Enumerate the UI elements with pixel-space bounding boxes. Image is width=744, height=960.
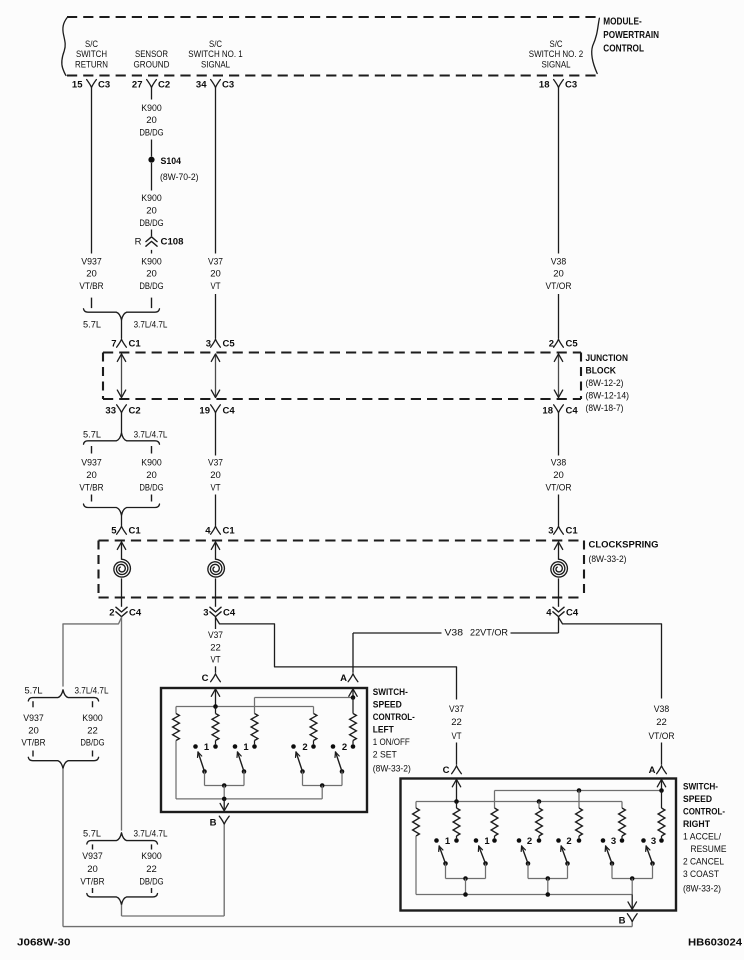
svg-text:(8W-18-7): (8W-18-7)	[586, 403, 624, 414]
wire V37 branch right	[216, 617, 457, 667]
svg-text:GROUND: GROUND	[134, 59, 170, 70]
svg-text:V937: V937	[81, 458, 102, 469]
riser R4 right	[538, 802, 540, 809]
svg-text:1 ON/OFF: 1 ON/OFF	[373, 737, 410, 748]
connector pin 3 C4	[203, 607, 236, 618]
connector pin 27 C2	[132, 80, 170, 91]
riser R7 right from A node	[661, 791, 663, 809]
svg-text:33: 33	[105, 405, 116, 416]
svg-text:V37: V37	[449, 704, 464, 715]
svg-text:C2: C2	[158, 80, 170, 91]
svg-text:20: 20	[210, 470, 221, 481]
svg-text:(8W-70-2): (8W-70-2)	[160, 172, 199, 183]
riser R3 right to A bus	[494, 791, 496, 809]
svg-text:VT/BR: VT/BR	[79, 281, 103, 292]
svg-text:22VT/OR: 22VT/OR	[470, 627, 508, 638]
svg-text:VT: VT	[452, 731, 462, 742]
svg-text:C108: C108	[161, 237, 184, 248]
riser R1	[175, 707, 177, 714]
svg-text:SWITCH-: SWITCH-	[683, 782, 718, 793]
connector pin 5 C1	[111, 526, 141, 537]
wire to pin 5 C1	[121, 515, 123, 526]
label V37 20 VT	[208, 256, 223, 292]
svg-text:22: 22	[210, 643, 221, 654]
svg-text:3.7L/4.7L: 3.7L/4.7L	[134, 429, 168, 440]
wire below splice	[151, 163, 153, 191]
label JUNCTION BLOCK	[586, 353, 630, 414]
wire return branch left to 5.7L brace	[63, 617, 122, 686]
terminal C switch-right	[443, 765, 462, 776]
pair bus 2 left box	[303, 783, 343, 799]
svg-text:27: 27	[132, 80, 143, 91]
svg-text:(8W-33-2): (8W-33-2)	[589, 554, 627, 565]
riser R3 to A bus	[254, 698, 256, 714]
merge brace to clockspring	[84, 504, 160, 515]
node C bus right box	[416, 799, 622, 804]
label K900 20 DB/DG	[139, 193, 163, 229]
connector pin 3 C1	[548, 526, 578, 537]
svg-text:BLOCK: BLOCK	[586, 366, 617, 377]
svg-text:(8W-12-14): (8W-12-14)	[586, 391, 630, 402]
riser R1 right	[415, 802, 417, 809]
switch blade 1	[237, 752, 246, 786]
svg-text:C3: C3	[222, 80, 234, 91]
svg-text:18: 18	[539, 80, 550, 91]
wire V38 branch right to switch-right A	[559, 617, 675, 764]
svg-text:20: 20	[146, 205, 157, 216]
svg-text:3.7L/4.7L: 3.7L/4.7L	[134, 320, 168, 331]
switch contact pair 2	[291, 741, 316, 754]
switch blade 2	[296, 752, 305, 786]
resistor R4 switch-left	[310, 714, 317, 741]
svg-text:3.7L/4.7L: 3.7L/4.7L	[75, 686, 109, 697]
node C bus left box	[176, 704, 314, 709]
resistor R5 switch-left	[350, 714, 357, 741]
svg-text:C4: C4	[223, 405, 236, 416]
riser R4	[313, 707, 315, 714]
svg-text:CLOCKSPRING: CLOCKSPRING	[589, 539, 659, 550]
switch contact pair 1	[233, 741, 257, 754]
svg-text:C4: C4	[566, 405, 579, 416]
resistor R1 switch-right	[413, 808, 420, 836]
svg-text:2: 2	[549, 339, 554, 350]
svg-text:S/C: S/C	[209, 39, 222, 50]
svg-text:5.7L: 5.7L	[83, 829, 101, 840]
svg-text:C1: C1	[129, 526, 142, 537]
switch-right A entry arrow	[657, 779, 665, 790]
label J068W-30	[17, 937, 71, 948]
stub K900	[151, 446, 153, 454]
riser R5 right to A bus	[578, 791, 580, 809]
switch-right contact pair 1	[474, 836, 497, 847]
pair bus 2 right box	[528, 876, 568, 894]
stub structure1 lower left	[32, 751, 34, 757]
svg-text:20: 20	[87, 864, 98, 875]
svg-text:15: 15	[72, 80, 83, 91]
svg-text:20: 20	[146, 470, 157, 481]
svg-text:C1: C1	[129, 339, 142, 350]
svg-text:SIGNAL: SIGNAL	[201, 59, 230, 70]
svg-text:18: 18	[542, 405, 553, 416]
svg-text:2 CANCEL: 2 CANCEL	[683, 857, 724, 868]
pair bus 1 right box	[446, 876, 486, 894]
wire V37 junction to clockspring	[208, 413, 223, 526]
resistor R1 switch-left	[173, 714, 180, 741]
node A bus left box	[255, 695, 356, 700]
switch-right blade 3	[605, 846, 614, 879]
svg-text:VT/BR: VT/BR	[80, 876, 104, 887]
label S/C SWITCH NO. 1 SIGNAL	[188, 39, 243, 71]
clockspring coil left	[114, 542, 131, 607]
svg-text:SPEED: SPEED	[683, 794, 712, 805]
svg-text:C2: C2	[129, 405, 141, 416]
svg-text:K900: K900	[141, 193, 161, 204]
label SWITCH-SPEED CONTROL-LEFT	[373, 687, 415, 775]
svg-text:5.7L: 5.7L	[25, 686, 43, 697]
svg-text:V38: V38	[551, 256, 567, 267]
svg-text:R: R	[135, 237, 142, 248]
svg-text:4: 4	[546, 607, 552, 618]
connector pin 4 C4	[546, 607, 579, 618]
svg-text:DB/DG: DB/DG	[139, 281, 163, 292]
splice S104	[148, 156, 198, 183]
wire from pin 33	[121, 413, 123, 434]
svg-text:K900: K900	[141, 103, 161, 114]
label V937 20 VT/BR	[79, 256, 103, 292]
svg-text:VT/BR: VT/BR	[79, 483, 103, 494]
brace structure 2 merge	[87, 894, 158, 905]
switch-right blade 2	[521, 846, 530, 879]
svg-text:7: 7	[111, 339, 116, 350]
connector pin 34 C3	[196, 80, 234, 91]
switch-right contact pair 3	[601, 836, 625, 847]
svg-text:2: 2	[566, 836, 571, 847]
wire V38 from pin 18	[558, 88, 560, 254]
switch-right blade 2	[561, 846, 570, 879]
svg-text:K900: K900	[141, 458, 161, 469]
wire structure2 to switch-left B	[122, 825, 225, 916]
connector pin 15 C3	[72, 80, 110, 91]
svg-text:1: 1	[204, 742, 210, 753]
brace structure 2 split	[83, 829, 168, 844]
svg-text:22: 22	[451, 717, 462, 728]
R1 drop to bottom bus	[175, 741, 177, 799]
connector pin 18 C4	[542, 405, 578, 417]
B exit arrow switch-right	[628, 895, 637, 910]
wire to C108	[151, 230, 153, 237]
wire V37 to switch-left C	[208, 617, 223, 672]
wire V38 main left to switch-left A	[353, 617, 559, 672]
connector pin 2 C4	[109, 607, 142, 618]
svg-text:20: 20	[146, 115, 157, 126]
label MODULE-POWERTRAIN CONTROL	[603, 16, 659, 54]
svg-text:20: 20	[553, 470, 564, 481]
svg-text:C1: C1	[566, 526, 579, 537]
wire V38 junction to clockspring	[546, 413, 572, 526]
bottom bus right box	[416, 892, 632, 897]
bottom bus left box	[176, 797, 322, 802]
svg-text:22: 22	[146, 864, 157, 875]
svg-text:5.7L: 5.7L	[83, 320, 101, 331]
svg-text:SPEED: SPEED	[373, 700, 402, 711]
resistor R7 switch-right	[658, 808, 665, 836]
svg-text:V38: V38	[445, 627, 464, 638]
svg-text:C5: C5	[566, 339, 579, 350]
svg-text:(8W-12-2): (8W-12-2)	[586, 378, 624, 389]
svg-text:SWITCH-: SWITCH-	[373, 687, 408, 698]
riser R2 right from C node	[456, 802, 458, 809]
svg-text:JUNCTION: JUNCTION	[586, 353, 629, 364]
svg-text:VT/OR: VT/OR	[546, 281, 572, 292]
wire V37 branch down to switch-right C	[449, 667, 464, 765]
switch-speed control-right box	[401, 779, 677, 911]
svg-text:SIGNAL: SIGNAL	[542, 59, 571, 70]
wire K900 20 DB/DG from pin 27	[151, 88, 153, 100]
svg-text:DB/DG: DB/DG	[139, 876, 163, 887]
connector pin 7 C1	[111, 339, 141, 350]
svg-text:CONTROL: CONTROL	[603, 43, 644, 54]
wire to splice	[151, 140, 153, 157]
svg-text:CONTROL-: CONTROL-	[683, 807, 725, 818]
label S/C SWITCH NO. 2 SIGNAL	[529, 39, 584, 71]
svg-text:J068W-30: J068W-30	[17, 937, 71, 948]
svg-text:V937: V937	[81, 256, 102, 267]
svg-text:C4: C4	[223, 607, 236, 618]
merge brace 5.7L / 3.7L-4.7L	[83, 309, 167, 331]
connector pin 18 C3	[539, 80, 577, 91]
svg-text:VT/BR: VT/BR	[21, 738, 45, 749]
svg-text:LEFT: LEFT	[373, 725, 394, 736]
wire to pin 7 C1	[121, 320, 123, 339]
svg-text:3: 3	[548, 526, 553, 537]
svg-text:22: 22	[656, 717, 667, 728]
split brace 5.7L / 3.7L-4.7L	[83, 429, 167, 444]
svg-text:A: A	[340, 673, 347, 684]
switch-right blade 3	[646, 846, 655, 879]
brace structure 1 split	[25, 686, 109, 701]
svg-text:2: 2	[342, 742, 347, 753]
svg-text:2 SET: 2 SET	[373, 750, 397, 761]
svg-text:HB603024: HB603024	[688, 937, 742, 948]
svg-text:POWERTRAIN: POWERTRAIN	[603, 30, 659, 41]
svg-text:VT: VT	[211, 483, 221, 494]
svg-text:3.7L/4.7L: 3.7L/4.7L	[134, 829, 168, 840]
connector pin 2 C5	[549, 339, 579, 350]
module-powertrain control dashed box	[62, 17, 600, 76]
svg-text:V38: V38	[654, 704, 670, 715]
svg-text:(8W-33-2): (8W-33-2)	[373, 764, 411, 775]
wire structure1 to switch-right B	[63, 769, 632, 927]
svg-text:K900: K900	[141, 256, 161, 267]
connector pin 4 C1	[205, 526, 235, 537]
label K900 22 DB/DG structure1	[80, 713, 104, 749]
label V937 20 VT/BR structure1	[21, 713, 45, 749]
svg-text:S/C: S/C	[85, 39, 98, 50]
terminal B switch-right	[619, 914, 637, 927]
switch-right blade 1	[439, 846, 448, 879]
svg-text:3: 3	[203, 607, 208, 618]
label SENSOR GROUND	[134, 49, 170, 70]
svg-text:C5: C5	[223, 339, 236, 350]
svg-text:20: 20	[28, 726, 39, 737]
junction block internal wire V38	[554, 354, 562, 398]
label K900 22 DB/DG structure2	[139, 851, 163, 887]
svg-text:4: 4	[205, 526, 211, 537]
switch-right blade 1	[478, 846, 487, 879]
label V38 20 VT/OR	[546, 256, 572, 292]
wire V37 from pin 34	[215, 88, 217, 254]
svg-text:C: C	[202, 673, 209, 684]
switch-right contact pair 3	[641, 836, 664, 847]
switch blade 2	[335, 752, 344, 786]
label SWITCH-SPEED CONTROL-RIGHT	[683, 782, 727, 895]
wire return main down	[121, 617, 123, 830]
in-line connector C108	[135, 237, 184, 248]
svg-text:1: 1	[243, 742, 249, 753]
switch-right contact pair 2	[556, 836, 581, 847]
svg-text:K900: K900	[82, 713, 102, 724]
resistor R2 switch-right	[453, 808, 460, 836]
svg-text:K900: K900	[141, 851, 161, 862]
svg-text:19: 19	[199, 405, 210, 416]
svg-text:C3: C3	[98, 80, 110, 91]
svg-text:22: 22	[87, 726, 98, 737]
svg-text:C4: C4	[129, 607, 142, 618]
svg-text:DB/DG: DB/DG	[80, 738, 104, 749]
svg-text:DB/DG: DB/DG	[139, 218, 163, 229]
svg-text:B: B	[210, 817, 217, 828]
stub structure1 lower right	[92, 751, 94, 757]
junction block internal wire return	[117, 354, 125, 398]
svg-text:1 ACCEL/: 1 ACCEL/	[683, 832, 721, 843]
svg-text:S/C: S/C	[550, 39, 563, 50]
svg-text:VT: VT	[211, 655, 221, 666]
connector pin 3 C5	[206, 339, 236, 350]
connector pin 33 C2	[105, 405, 140, 417]
clockspring coil middle	[208, 542, 225, 607]
terminal B switch-left	[210, 816, 230, 828]
svg-text:V37: V37	[208, 630, 223, 641]
svg-text:A: A	[649, 765, 656, 776]
svg-text:3: 3	[651, 836, 656, 847]
stub structure1 right	[92, 701, 94, 707]
label S/C SWITCH RETURN	[75, 39, 108, 71]
switch-speed control-left box	[161, 688, 367, 812]
engine-variant stub K900	[151, 298, 153, 309]
switch-left C entry arrow	[211, 689, 219, 707]
svg-text:B: B	[619, 915, 626, 926]
stub structure1 left	[32, 701, 34, 707]
svg-text:C1: C1	[223, 526, 236, 537]
resistor R3 switch-left	[251, 714, 258, 741]
wire V38 to junction block	[558, 294, 560, 339]
svg-text:3: 3	[206, 339, 211, 350]
svg-text:C4: C4	[566, 607, 579, 618]
B exit arrow switch-left	[220, 799, 228, 811]
svg-text:CONTROL-: CONTROL-	[373, 712, 415, 723]
svg-text:2: 2	[109, 607, 114, 618]
wire V937 20 VT/BR from pin 15	[91, 88, 93, 254]
wire V37 to junction block	[215, 294, 217, 339]
stub structure2 left	[92, 844, 94, 849]
stub structure2 right	[151, 844, 153, 849]
svg-text:3 COAST: 3 COAST	[683, 869, 719, 880]
svg-text:C: C	[443, 765, 450, 776]
stub K900 lower	[151, 495, 153, 502]
switch blade 1	[198, 752, 207, 786]
junction block dashed box	[103, 353, 581, 400]
clockspring dashed box	[99, 541, 585, 598]
label K900 20 DB/DG	[139, 256, 163, 292]
label V38 22VT/OR inline	[445, 627, 509, 638]
label CLOCKSPRING	[589, 539, 659, 565]
resistor R5 switch-right	[576, 808, 583, 836]
riser R2 from C node	[215, 707, 217, 714]
riser R5 from A node	[352, 698, 354, 714]
svg-text:20: 20	[86, 269, 97, 280]
pair bus 1 left box	[205, 783, 245, 799]
terminal A switch-left	[340, 673, 358, 684]
switch-right C entry arrow	[452, 779, 460, 801]
svg-text:3: 3	[611, 836, 616, 847]
svg-text:V37: V37	[208, 256, 223, 267]
svg-text:DB/DG: DB/DG	[139, 483, 163, 494]
svg-text:RETURN: RETURN	[75, 59, 108, 70]
svg-text:(8W-33-2): (8W-33-2)	[683, 884, 721, 895]
svg-text:VT/OR: VT/OR	[546, 483, 572, 494]
stub structure2 lower right	[151, 888, 153, 893]
svg-text:V937: V937	[82, 851, 103, 862]
resistor R6 switch-right	[619, 808, 626, 836]
svg-text:RIGHT: RIGHT	[683, 819, 710, 830]
svg-text:20: 20	[553, 269, 564, 280]
svg-text:S104: S104	[161, 156, 182, 167]
switch contact pair 2	[331, 741, 356, 754]
label K900 20 DB/DG	[139, 458, 163, 494]
node A bus right box	[495, 788, 664, 793]
terminal C switch-left	[202, 673, 221, 684]
svg-text:V37: V37	[208, 458, 223, 469]
svg-text:V38: V38	[551, 458, 567, 469]
label V937 20 VT/BR	[79, 458, 103, 494]
resistor R4 switch-right	[536, 808, 543, 836]
svg-text:DB/DG: DB/DG	[139, 127, 163, 138]
connector pin 19 C4	[199, 405, 235, 417]
stub V937 lower	[91, 495, 93, 502]
junction block internal wire V37	[211, 354, 219, 398]
svg-text:20: 20	[146, 269, 157, 280]
svg-text:RESUME: RESUME	[691, 844, 727, 855]
R1 right drop to bottom bus	[415, 836, 417, 895]
pair bus 3 right box	[612, 876, 653, 894]
svg-text:VT: VT	[211, 281, 221, 292]
svg-text:C3: C3	[565, 80, 577, 91]
svg-text:MODULE-: MODULE-	[603, 16, 641, 27]
clockspring coil right	[551, 542, 568, 607]
svg-text:5.7L: 5.7L	[83, 429, 101, 440]
svg-text:V937: V937	[23, 713, 44, 724]
stub V937	[91, 446, 93, 454]
svg-text:1: 1	[445, 836, 451, 847]
label HB603024	[688, 937, 742, 948]
switch-right contact pair 2	[517, 836, 542, 847]
svg-text:20: 20	[210, 269, 221, 280]
svg-text:VT/OR: VT/OR	[649, 731, 675, 742]
svg-text:2: 2	[527, 836, 532, 847]
resistor R2 switch-left	[212, 714, 219, 741]
switch contact pair 1	[193, 741, 218, 754]
svg-text:20: 20	[86, 470, 97, 481]
